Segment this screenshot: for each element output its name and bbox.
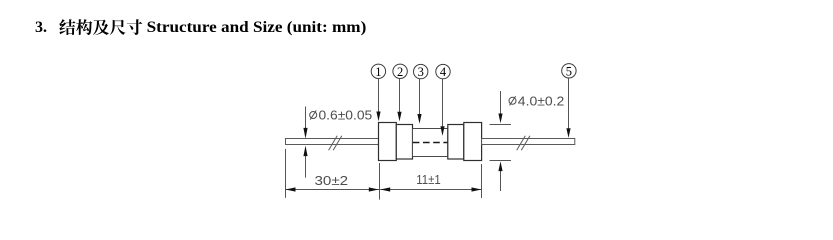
end cap right inner segment [448, 125, 464, 160]
svg-text:3.: 3. [35, 19, 47, 36]
svg-text:4.0±0.2: 4.0±0.2 [518, 94, 565, 109]
lead wire right [482, 139, 575, 145]
end cap left outer segment [379, 123, 397, 161]
svg-text:30±2: 30±2 [315, 173, 349, 188]
dimension text Ø4.0±0.2 [509, 94, 564, 109]
break mark on right lead [517, 136, 530, 150]
callout circle 5 [562, 64, 576, 79]
svg-text:0.6±0.05: 0.6±0.05 [319, 108, 373, 123]
callout circle 2 [393, 64, 407, 79]
svg-text:5: 5 [566, 64, 572, 78]
dimension arrow below right cap [498, 161, 502, 191]
extension line top of right cap [490, 124, 512, 126]
leader arrow 5 [566, 78, 570, 138]
dimension arrow above left lead [303, 107, 307, 139]
leader arrow 2 [397, 79, 401, 122]
leader arrow 3 [417, 79, 421, 124]
end cap right outer segment [464, 123, 482, 161]
svg-text:4: 4 [440, 65, 447, 79]
extension line bottom of right cap [490, 160, 512, 162]
end cap left inner segment [396, 125, 412, 160]
dimension arrow below left lead [303, 146, 307, 178]
dimension arrow above right cap [498, 91, 502, 123]
callout circle 3 [414, 64, 428, 79]
callout circle 1 [371, 64, 385, 79]
leader arrow 4 [440, 79, 444, 136]
title CJK text 结构及尺寸 (drawn as paths) [59, 19, 142, 35]
extension line at cap left edge (shared) [379, 163, 381, 200]
svg-text:2: 2 [397, 65, 403, 79]
dimension line 30±2 [286, 187, 380, 191]
leader arrow 1 [376, 79, 380, 122]
fuse element dashed centerline [413, 142, 448, 144]
svg-text:3: 3 [418, 65, 424, 79]
dimension line 11±1 [380, 187, 481, 191]
callout circle 4 [436, 64, 450, 79]
extension line at left lead end [285, 149, 287, 198]
svg-text:1: 1 [375, 65, 381, 79]
lead wire left [286, 139, 379, 145]
fuse body tube [413, 129, 448, 157]
svg-text:Structure and Size (unit: mm): Structure and Size (unit: mm) [147, 19, 367, 36]
svg-text:11±1: 11±1 [416, 172, 441, 187]
extension line at cap right edge [481, 164, 483, 198]
dimension text Ø0.6±0.05 [310, 108, 373, 123]
break mark on left lead [329, 136, 342, 150]
